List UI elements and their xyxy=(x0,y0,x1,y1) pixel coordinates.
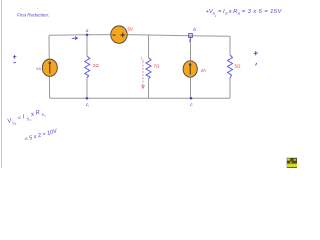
svg-text:First Reduction:: First Reduction: xyxy=(17,13,50,18)
title First Reduction xyxy=(17,8,50,18)
svg-text:5Ω: 5Ω xyxy=(235,64,242,69)
svg-text:3A: 3A xyxy=(201,68,208,73)
wire branch a xyxy=(86,35,88,56)
current source I1 5A xyxy=(42,59,57,76)
svg-text:x R: x R xyxy=(228,9,239,15)
svg-text:5A: 5A xyxy=(36,66,41,71)
svg-text:b: b xyxy=(193,27,196,33)
equation VS1 bottom left line 2 xyxy=(24,128,59,143)
wire left edge xyxy=(48,35,51,98)
resistor R4 5ohm (right edge) xyxy=(228,55,233,78)
node c left xyxy=(86,97,90,108)
svg-text:7Ω: 7Ω xyxy=(154,64,161,69)
wire branch b xyxy=(190,36,192,62)
svg-text:c,: c, xyxy=(86,103,90,108)
wire top right segment xyxy=(127,35,230,37)
wire bottom xyxy=(50,97,230,99)
current source I2 3A xyxy=(183,61,197,77)
node b xyxy=(189,27,197,42)
node c right xyxy=(190,97,194,108)
wire top left segment xyxy=(49,34,111,37)
watermark logo bottom right xyxy=(287,158,297,168)
svg-text:a: a xyxy=(86,29,89,34)
polarity mark right (+) xyxy=(254,51,258,65)
svg-text:5V: 5V xyxy=(128,27,135,32)
resistor R1 2ohm xyxy=(85,56,90,78)
equation VS1 bottom left line 1 xyxy=(7,108,47,127)
page border line xyxy=(1,0,3,168)
wire right edge xyxy=(229,36,231,55)
current arrow I (dashed, middle branch) xyxy=(142,62,145,89)
wire branch middle xyxy=(148,35,150,58)
node a xyxy=(86,29,89,36)
equation VR2 top right xyxy=(206,9,283,18)
svg-text:2Ω: 2Ω xyxy=(93,63,100,68)
svg-text:= I: = I xyxy=(218,9,225,15)
resistor R2 7ohm xyxy=(146,58,151,80)
polarity marks left (+ / -) xyxy=(13,55,16,63)
svg-text:= 3 x 5 = 15V: = 3 x 5 = 15V xyxy=(242,9,283,15)
current arrow into node a xyxy=(72,37,78,40)
voltage source V1 5V xyxy=(111,26,127,43)
